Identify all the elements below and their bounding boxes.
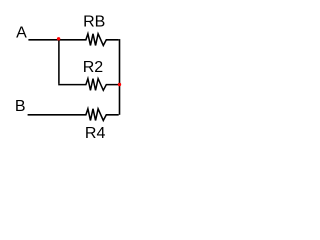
svg-text:R4: R4 <box>85 125 106 142</box>
svg-text:R2: R2 <box>83 59 104 76</box>
svg-text:RB: RB <box>83 13 105 30</box>
svg-text:B: B <box>15 98 26 115</box>
svg-text:A: A <box>16 25 27 42</box>
